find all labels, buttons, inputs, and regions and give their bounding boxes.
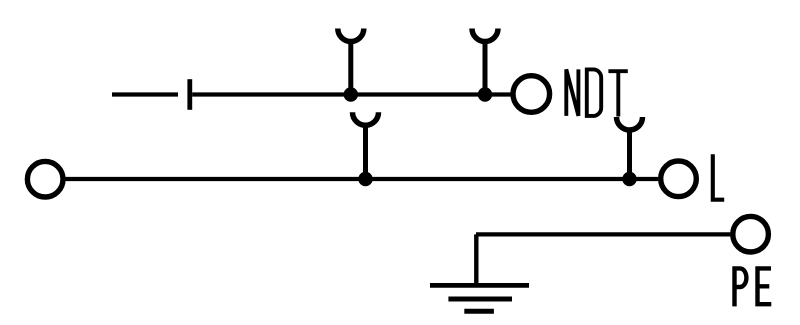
node junction dot J1 [344,87,358,101]
wire middle row (L bus) [65,177,658,181]
fork plug contact F1 stem [348,42,353,95]
node junction dot J4 [622,172,636,186]
terminal circle L [661,161,697,197]
wire lead-in segment top row [112,92,178,96]
node junction dot J2 [478,87,492,101]
ground bar 3 [464,309,494,314]
fork plug contact F4 stem [627,130,632,179]
fork plug contact F2 stem [483,42,488,95]
wire PE row horizontal [476,232,730,236]
ground bar 1 [430,283,529,288]
fork plug contact F2 arc [472,29,498,42]
disconnect tick [187,79,192,110]
terminal circle left entry [27,161,63,197]
label PE letter E [758,268,772,304]
terminal circle NDT [513,76,550,113]
node junction dot J3 [358,172,372,186]
wire PE vertical drop [474,234,478,285]
fork plug contact F3 stem [363,125,368,179]
label NDT letter N [566,69,578,116]
wire top row (NDT bus) [192,92,511,96]
label NDT letter D [587,69,601,116]
label PE letter P [735,268,747,306]
ground bar 2 [448,297,512,302]
label L [713,154,724,200]
fork plug contact F4 arc [617,117,643,130]
fork plug contact F3 arc [353,112,379,125]
fork plug contact F1 arc [338,29,364,42]
label NDT letter T [608,71,627,117]
terminal circle PE [733,216,769,252]
